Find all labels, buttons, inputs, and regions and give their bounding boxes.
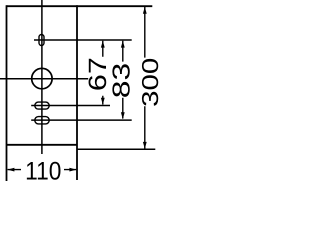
vertical centerline <box>41 0 43 154</box>
slot 1 center line (extension for 67 dim) <box>31 105 110 107</box>
plate outline top edge (extends right as extension line for 300 dim) <box>7 5 153 7</box>
large circle (mounting hole) <box>32 68 52 88</box>
110 dim arrow right <box>69 168 76 172</box>
300 dimension line segments <box>144 7 146 149</box>
extension line bottom-right for 300 dim <box>77 148 155 150</box>
110 dim arrow left <box>7 168 14 172</box>
67 dim arrow down <box>101 98 105 105</box>
67 dim arrow up <box>101 41 105 48</box>
83 dim arrow up <box>121 41 125 48</box>
top slot center line (extension for 67/83 dims) <box>34 39 132 41</box>
top vertical slot <box>39 35 44 46</box>
plate outline right edge (extends down as extension line for 110 dim) <box>76 5 78 180</box>
300 dim arrow up <box>143 7 147 14</box>
svg-text:300: 300 <box>137 58 160 107</box>
slot 2 center line (extension for 83 dim) <box>31 119 132 121</box>
plate outline bottom edge <box>7 144 78 146</box>
svg-text:67: 67 <box>84 57 112 91</box>
300 dim arrow down <box>143 142 147 149</box>
plate outline left edge (extends down as extension line for 110 dim) <box>6 5 8 181</box>
horizontal datum line through circle <box>0 78 88 80</box>
110 dimension line segments <box>8 169 77 171</box>
83 dim arrow down <box>121 112 125 119</box>
svg-text:83: 83 <box>109 63 136 98</box>
bottom horizontal slot 1 <box>35 102 49 109</box>
bottom horizontal slot 2 <box>35 117 49 124</box>
83 dimension line segments <box>122 41 124 119</box>
svg-text:110: 110 <box>25 158 61 186</box>
67 dimension line segments <box>102 41 104 105</box>
